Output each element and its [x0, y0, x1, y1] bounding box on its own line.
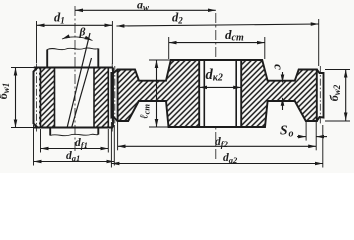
dcm extension left — [168, 37, 170, 59]
svg-text:β: β — [79, 27, 86, 39]
da2 extension left — [110, 122, 112, 168]
wheel pitch line left (dash-dot) — [114, 66, 116, 125]
dim da2 line — [111, 163, 322, 165]
shaft above pinion — [47, 49, 98, 68]
pinion tip edge right — [112, 68, 114, 128]
svg-text:бw1: бw1 — [0, 83, 11, 100]
pinion pitch line right (dash-dot) — [111, 64, 113, 132]
da1 extension right — [113, 125, 115, 166]
lcm extension bottom — [149, 126, 169, 128]
pinion root line right — [107, 68, 109, 128]
svg-text:c: c — [272, 64, 287, 70]
d1 extension left — [36, 21, 38, 63]
pinion root line left — [40, 68, 42, 128]
dim c down arrow — [282, 72, 284, 83]
df2 extension left — [117, 122, 119, 150]
dim d2 line — [116, 24, 318, 26]
pinion rim inner line right — [93, 68, 95, 128]
shaft break line bottom — [50, 134, 98, 136]
da1 extension left — [33, 125, 35, 166]
bw2 extension bottom — [325, 120, 350, 122]
pinion bottom face — [34, 127, 113, 129]
wheel pitch line right (dash-dot) — [319, 66, 321, 125]
dcm extension right — [264, 37, 266, 59]
pinion pitch line left (dash-dot) — [36, 64, 38, 132]
So extension — [305, 122, 307, 141]
df2 extension right — [315, 122, 317, 150]
bore edge left inner — [203, 60, 205, 127]
helix line A on pinion face — [67, 33, 90, 128]
wheel section body (hatched) — [118, 60, 317, 127]
dim dcm line — [169, 42, 265, 44]
wheel left tooth — [111, 70, 117, 122]
dim c up arrow — [282, 98, 284, 110]
bore edge left outer — [198, 60, 200, 127]
helix line B on pinion face — [72, 58, 92, 128]
dim da1 line — [34, 161, 115, 163]
bore edge right inner — [235, 60, 237, 127]
pinion top face — [34, 67, 113, 69]
wheel right tooth — [317, 70, 324, 122]
pinion hatch right band — [94, 68, 108, 128]
d1 extension right — [111, 21, 113, 64]
shaft break line top — [47, 48, 98, 50]
pinion hatch left band — [39, 68, 55, 128]
bw1 extension bottom — [11, 127, 34, 129]
bore band (white) — [199, 60, 241, 127]
bore edge right outer — [240, 60, 242, 127]
hub bottom face — [169, 126, 266, 128]
dim aw line — [75, 9, 216, 11]
dim d1 line — [37, 24, 113, 26]
dim bw1 line — [15, 68, 17, 128]
d2 extension right — [318, 19, 320, 66]
svg-text:aw: aw — [137, 0, 150, 13]
df1 extension left — [40, 129, 42, 153]
wheel axis centerline — [215, 13, 217, 160]
lcm extension top — [149, 59, 172, 61]
dim dk2 line — [199, 86, 241, 88]
pinion tooth outline — [34, 68, 38, 128]
dim So line right part — [316, 136, 327, 138]
dim lcm line — [156, 60, 158, 127]
pinion rim inner line left — [54, 68, 56, 128]
bw1 extension top — [11, 67, 34, 69]
shaft below pinion — [50, 128, 98, 136]
dim So line left part — [297, 136, 306, 138]
pinion axis centerline — [75, 6, 216, 160]
bw2 extension top — [325, 69, 350, 71]
dim df1 line — [41, 148, 109, 150]
dim df2 line — [118, 145, 317, 147]
beta angle arc — [62, 37, 93, 41]
hub top face — [171, 59, 262, 61]
da2 extension right — [322, 125, 324, 168]
df1 extension right — [107, 129, 109, 153]
dim bw2 line — [345, 70, 347, 121]
